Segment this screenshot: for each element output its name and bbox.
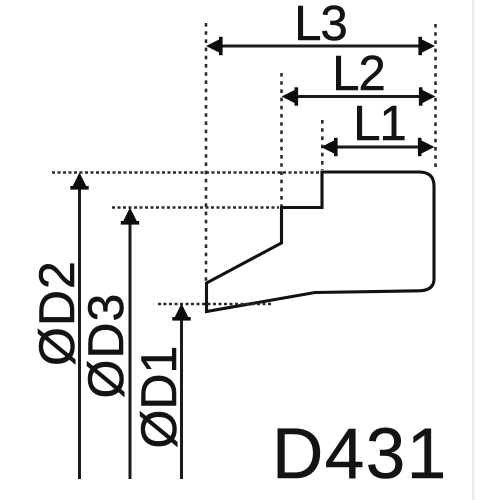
dimension line OD2 vertical xyxy=(78,177,81,479)
arrowhead OD2 up xyxy=(70,173,88,190)
part outline D431 cross-section xyxy=(207,172,435,312)
svg-text:D431: D431 xyxy=(272,415,448,494)
dimension line L1 xyxy=(325,146,431,149)
dimension line OD3 vertical xyxy=(129,212,132,479)
svg-text:ØD3: ØD3 xyxy=(78,293,134,399)
arrowhead L1 left xyxy=(321,138,338,156)
extension line dotted vertical right (x=435.5) xyxy=(434,24,437,170)
extension line dotted horizontal D2 (y=172.5) xyxy=(52,171,320,174)
arrowhead L3 right xyxy=(418,37,435,55)
arrowhead OD1 up xyxy=(172,304,190,321)
extension line dotted horizontal D1 (y=304) xyxy=(158,303,272,306)
dimension line L3 xyxy=(210,45,431,48)
svg-text:ØD2: ØD2 xyxy=(29,260,85,366)
svg-text:L1: L1 xyxy=(353,97,406,151)
dimension line L2 xyxy=(285,95,432,98)
svg-text:L3: L3 xyxy=(294,0,347,51)
svg-text:ØD1: ØD1 xyxy=(131,346,187,449)
arrowhead OD3 up xyxy=(121,208,139,225)
arrowhead L2 right xyxy=(419,87,436,105)
arrowhead L2 left xyxy=(282,87,299,105)
svg-text:L2: L2 xyxy=(332,47,385,101)
faint scan line right xyxy=(472,0,475,500)
arrowhead L3 left xyxy=(206,37,223,55)
arrowhead L1 right xyxy=(418,138,435,156)
extension line dotted vertical left of L2 (x=281.5) xyxy=(280,73,283,206)
dimension line OD1 vertical xyxy=(180,308,183,479)
extension line dotted horizontal D3 (y=207.5) xyxy=(112,206,279,209)
extension line dotted vertical left of L3 (x=206) xyxy=(205,23,208,281)
extension line dotted vertical left of L1 (x=322.3) xyxy=(321,120,324,170)
